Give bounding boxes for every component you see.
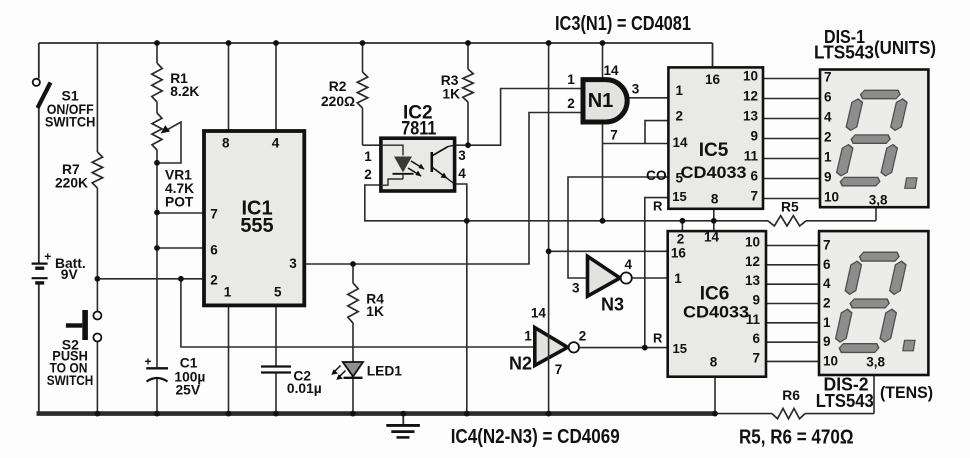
svg-text:7: 7: [555, 362, 563, 377]
svg-text:IC5: IC5: [699, 140, 729, 161]
svg-text:3: 3: [458, 148, 466, 163]
svg-text:1K: 1K: [366, 304, 384, 319]
svg-text:220K: 220K: [55, 176, 88, 191]
svg-text:220Ω: 220Ω: [321, 94, 355, 109]
svg-text:N3: N3: [601, 295, 624, 315]
svg-text:1: 1: [524, 329, 532, 344]
svg-text:LTS543: LTS543: [814, 43, 874, 63]
svg-text:C1: C1: [180, 355, 198, 370]
svg-text:IC4(N2-N3) = CD4069: IC4(N2-N3) = CD4069: [451, 426, 620, 448]
svg-text:2: 2: [364, 167, 372, 182]
svg-text:5: 5: [676, 171, 684, 186]
svg-text:13: 13: [743, 109, 759, 124]
svg-text:6: 6: [752, 331, 760, 346]
svg-text:R5, R6 = 470Ω: R5, R6 = 470Ω: [739, 427, 854, 449]
svg-text:555: 555: [240, 215, 273, 237]
svg-text:1: 1: [567, 72, 575, 87]
svg-text:10: 10: [823, 353, 838, 368]
svg-text:6: 6: [824, 90, 832, 105]
svg-text:8: 8: [710, 355, 718, 370]
svg-text:5: 5: [274, 285, 282, 300]
svg-text:3: 3: [289, 256, 297, 271]
svg-text:12: 12: [743, 89, 758, 104]
svg-text:7: 7: [824, 70, 832, 85]
svg-text:CD4033: CD4033: [681, 163, 747, 182]
svg-text:3,8: 3,8: [866, 355, 885, 370]
svg-text:7: 7: [823, 238, 831, 253]
svg-text:0.01µ: 0.01µ: [287, 381, 322, 396]
svg-text:3: 3: [572, 280, 580, 295]
svg-text:4: 4: [624, 257, 632, 272]
svg-text:3: 3: [632, 82, 640, 97]
svg-text:1: 1: [823, 315, 831, 330]
svg-text:1K: 1K: [442, 87, 460, 102]
svg-text:2: 2: [676, 109, 684, 124]
svg-text:12: 12: [745, 254, 760, 269]
svg-text:+: +: [145, 355, 152, 369]
svg-text:LED1: LED1: [367, 363, 403, 378]
svg-text:R6: R6: [782, 388, 800, 403]
svg-text:14: 14: [673, 135, 689, 150]
svg-text:8: 8: [711, 192, 719, 207]
svg-text:9V: 9V: [61, 267, 79, 282]
svg-text:2: 2: [579, 329, 587, 344]
svg-text:(UNITS): (UNITS): [874, 38, 936, 58]
svg-text:7811: 7811: [401, 119, 436, 140]
svg-text:R: R: [653, 331, 663, 346]
svg-text:+: +: [44, 250, 51, 264]
svg-text:2: 2: [824, 130, 832, 145]
svg-text:1: 1: [224, 285, 232, 300]
svg-text:9: 9: [752, 292, 760, 307]
svg-text:11: 11: [746, 312, 761, 327]
svg-text:CO: CO: [646, 168, 667, 183]
svg-text:N2: N2: [509, 353, 532, 373]
svg-text:14: 14: [531, 306, 547, 321]
svg-text:4: 4: [824, 110, 832, 125]
svg-text:7: 7: [750, 189, 758, 204]
svg-text:POT: POT: [165, 194, 194, 209]
svg-text:8: 8: [222, 136, 230, 151]
svg-text:R5: R5: [781, 200, 799, 215]
svg-text:16: 16: [705, 72, 721, 87]
svg-text:6: 6: [823, 257, 831, 272]
svg-text:14: 14: [704, 230, 720, 245]
svg-text:9: 9: [823, 334, 831, 349]
svg-text:2: 2: [567, 96, 575, 111]
svg-text:9: 9: [750, 129, 758, 144]
svg-text:7: 7: [210, 207, 218, 222]
svg-text:R: R: [653, 199, 663, 214]
svg-text:3,8: 3,8: [869, 193, 888, 208]
svg-text:6: 6: [210, 243, 218, 258]
svg-text:7: 7: [752, 350, 760, 365]
svg-text:14: 14: [603, 63, 619, 78]
svg-text:1: 1: [674, 271, 682, 286]
svg-text:7: 7: [610, 128, 618, 143]
svg-text:IC6: IC6: [700, 284, 730, 305]
svg-text:16: 16: [671, 246, 687, 261]
svg-text:LTS543: LTS543: [816, 391, 874, 411]
svg-text:IC3(N1) = CD4081: IC3(N1) = CD4081: [555, 13, 691, 35]
svg-text:CD4033: CD4033: [683, 303, 749, 322]
svg-text:(TENS): (TENS): [880, 383, 933, 402]
svg-text:25V: 25V: [176, 383, 201, 398]
svg-text:9: 9: [824, 170, 832, 185]
svg-text:1: 1: [676, 83, 684, 98]
svg-text:2: 2: [823, 295, 831, 310]
svg-text:6: 6: [750, 169, 758, 184]
svg-text:11: 11: [744, 149, 759, 164]
svg-text:1: 1: [364, 149, 372, 164]
svg-text:10: 10: [824, 190, 839, 205]
svg-text:10: 10: [745, 235, 760, 250]
svg-text:4: 4: [823, 276, 831, 291]
svg-text:15: 15: [673, 341, 687, 356]
svg-text:2: 2: [677, 232, 685, 247]
svg-text:8.2K: 8.2K: [170, 84, 199, 99]
svg-text:1: 1: [824, 150, 832, 165]
svg-text:SWITCH: SWITCH: [45, 113, 96, 129]
svg-text:N1: N1: [588, 90, 614, 112]
svg-text:2: 2: [210, 273, 218, 288]
svg-text:SWITCH: SWITCH: [47, 372, 94, 388]
svg-text:10: 10: [743, 69, 758, 84]
svg-text:R2: R2: [329, 79, 347, 94]
svg-text:15: 15: [672, 189, 686, 204]
svg-text:13: 13: [745, 273, 761, 288]
svg-text:4: 4: [458, 166, 466, 181]
svg-text:4: 4: [272, 136, 280, 151]
